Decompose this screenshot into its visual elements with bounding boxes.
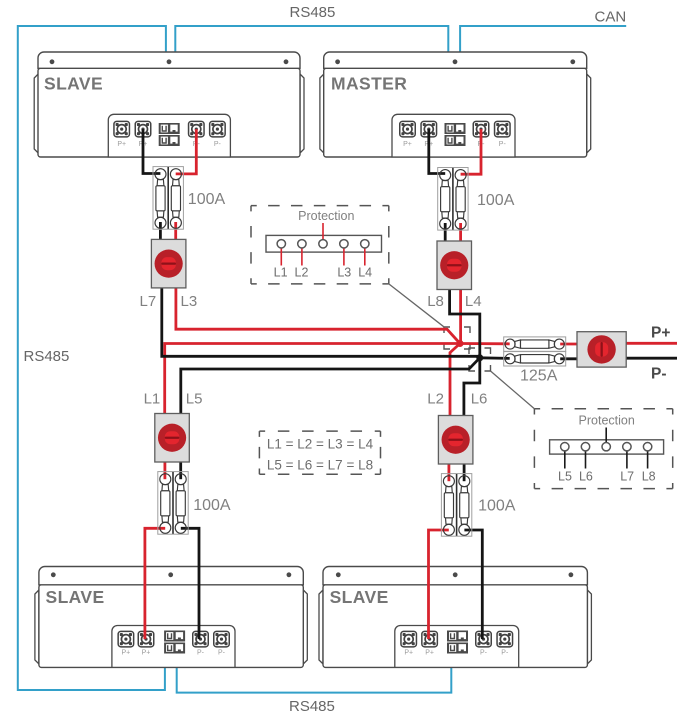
svg-text:100A: 100A [193, 497, 231, 514]
slave TL terminal P- 1 [189, 121, 205, 137]
slave BL left side flap [35, 590, 39, 664]
wire black L5: fuse BL bottom to slave BL P- terminal [181, 528, 199, 639]
bracket corner marks around red junction [444, 327, 470, 349]
slave TL screw 3 [284, 59, 289, 64]
slave BR terminal labels [404, 650, 509, 657]
master terminal labels [403, 141, 506, 148]
wire black L6: breaker BR to fuse BR [463, 463, 466, 481]
slave BL terminal P- 1 [193, 631, 209, 647]
wire RS485 top segment between slave and master [175, 26, 448, 53]
wire red L1: junction left and down to breaker BL [165, 344, 460, 415]
slave BR screw 1 [336, 572, 341, 577]
svg-text:L7: L7 [140, 293, 157, 310]
slave BL terminal panel [112, 626, 235, 668]
wire black L7: fuse to breaker [159, 222, 162, 240]
fuse 125A upper (P+) [504, 337, 566, 351]
slave BR terminal P+ 1 [401, 631, 417, 647]
svg-text:L6: L6 [579, 470, 593, 484]
slave BR screw 3 [569, 572, 574, 577]
slave BR comm block [447, 631, 468, 654]
svg-text:L5 = L6 = L7 = L8: L5 = L6 = L7 = L8 [267, 457, 373, 472]
wire black L6: junction stepped down to breaker BR [464, 358, 480, 417]
slave TL body [38, 68, 300, 157]
svg-text:100A: 100A [188, 191, 226, 208]
wire black L8: master P+ terminal to fuse TR [429, 129, 445, 173]
svg-text:SLAVE: SLAVE [44, 74, 103, 94]
fuse 100A bottom-left pair [158, 472, 188, 535]
master lid [324, 52, 587, 68]
fuse 100A top-left pair [153, 167, 183, 230]
note box dashed border [259, 431, 380, 474]
slave BL terminal labels [122, 650, 226, 657]
bracket corner marks around black junction [469, 348, 491, 371]
slave BL terminal P+ 1 [118, 631, 133, 647]
wire black L7: slave TL P+ terminal to fuse [143, 129, 160, 173]
svg-text:L8: L8 [642, 470, 656, 484]
wire red L2: breaker BR to fuse BR [447, 463, 450, 481]
svg-text:P-: P- [651, 366, 667, 383]
node black junction [476, 354, 483, 361]
wire red bus: junction to 125A fuse [460, 342, 510, 345]
wire black L8: fuse TR to breaker TR [444, 223, 447, 242]
svg-text:L5: L5 [558, 470, 572, 484]
wire black L7: breaker down and right to junction [162, 287, 480, 356]
svg-text:L2: L2 [295, 266, 309, 280]
wire black bus: junction to 125A fuse [480, 356, 510, 359]
svg-text:RS485: RS485 [290, 4, 336, 21]
svg-text:SLAVE: SLAVE [330, 587, 389, 607]
master terminal P- 2 [495, 121, 511, 137]
leader black to middle circle [605, 428, 607, 444]
svg-text:P-: P- [218, 650, 226, 657]
slave BL comm block [164, 631, 185, 654]
svg-text:P+: P+ [651, 325, 670, 342]
svg-text:L5: L5 [186, 391, 203, 408]
slave BL terminal P+ 2 [138, 631, 154, 647]
wire black L5: breaker BL to fuse BL [179, 461, 182, 479]
slave TL left side flap [34, 74, 38, 153]
slave TL screw 1 [50, 59, 55, 64]
wire black L6: fuse BR bottom to slave BR P- terminal [464, 530, 482, 639]
wire red bus: output breaker to P+ [626, 342, 677, 345]
slave BL body [39, 585, 303, 668]
master terminal P- 1 [473, 121, 489, 137]
wire red L1: breaker BL to fuse BL [163, 461, 166, 479]
slave BR terminal P+ 2 [422, 631, 438, 647]
slave BL lid [39, 567, 303, 585]
wire RS485 bottom segment between the two bottom slaves [177, 667, 452, 693]
labels L5-L8 [558, 470, 656, 484]
svg-text:L3: L3 [337, 266, 351, 280]
svg-text:P-: P- [501, 650, 509, 657]
leader red L1 [280, 247, 282, 266]
svg-text:Protection: Protection [298, 209, 354, 223]
slave TL screw 2 [167, 59, 172, 64]
svg-text:RS485: RS485 [289, 698, 335, 715]
labels L1-L4 [274, 266, 373, 280]
master left side flap [320, 74, 324, 153]
slave BR left side flap [319, 590, 323, 664]
svg-text:P+: P+ [403, 141, 412, 148]
svg-text:L1 = L2 = L3 = L4: L1 = L2 = L3 = L4 [267, 436, 374, 451]
leader line from protection top box to red junction bracket [389, 284, 445, 327]
wire red L4: breaker TR down to junction [459, 289, 462, 344]
master screw 3 [570, 59, 575, 64]
slave TL terminal P- 2 [210, 121, 226, 137]
slave BL terminal P- 2 [214, 631, 230, 647]
leader black L8 [647, 450, 649, 469]
slave BR right side flap [587, 590, 591, 664]
slave BL right side flap [303, 590, 307, 664]
svg-text:P-: P- [197, 650, 205, 657]
slave TL right side flap [300, 74, 304, 153]
svg-text:L8: L8 [427, 293, 444, 310]
slave BR body [323, 585, 587, 668]
slave TL terminal labels [117, 141, 221, 148]
svg-text:P+: P+ [122, 650, 131, 657]
breaker BL (isolator, L1/L5) [155, 414, 190, 463]
wire red L3: breaker down, right, diagonal to junction [176, 287, 460, 344]
leader red L3 [343, 247, 345, 266]
protection box bottom dashed border [534, 409, 672, 489]
master terminal P+ 2 [421, 121, 437, 137]
wire red L2: junction diagonal and down to breaker BR [450, 344, 460, 417]
slave BL screw 3 [287, 572, 292, 577]
svg-text:125A: 125A [520, 368, 558, 385]
svg-text:100A: 100A [478, 498, 516, 515]
svg-text:CAN: CAN [595, 9, 627, 26]
fuse 100A bottom-right pair [441, 474, 471, 537]
breaker BR (isolator, L2/L6) [438, 416, 473, 465]
leader black L5 [564, 450, 566, 469]
master screw 1 [335, 59, 340, 64]
master terminal panel [392, 114, 515, 157]
slave TL comm block [159, 123, 180, 146]
strip terminal circles [277, 240, 285, 248]
svg-text:P-: P- [499, 141, 507, 148]
svg-text:L4: L4 [358, 266, 372, 280]
svg-text:P-: P- [480, 650, 488, 657]
node red junction [457, 340, 464, 347]
wire red L4: master P- terminal to fuse TR [461, 129, 481, 174]
wire CAN from master to the right [460, 26, 626, 53]
leader red to middle circle [322, 223, 324, 240]
leader line from black junction bracket to protection bottom box [491, 371, 535, 409]
wire black L5: junction diagonal, left, down to breaker BL [181, 358, 480, 415]
master comm block [445, 123, 466, 146]
wire red L2: fuse BR bottom to slave BR P+ terminal [429, 530, 449, 639]
svg-text:SLAVE: SLAVE [46, 587, 105, 607]
breaker TR (isolator, L8/L4) [437, 241, 472, 290]
svg-text:L6: L6 [471, 391, 488, 408]
master terminal P+ 1 [400, 121, 416, 137]
svg-text:L3: L3 [181, 293, 198, 310]
svg-text:L7: L7 [620, 470, 634, 484]
svg-text:MASTER: MASTER [331, 74, 407, 94]
svg-text:P-: P- [214, 141, 222, 148]
svg-text:P+: P+ [142, 650, 151, 657]
slave BR terminal panel [395, 626, 519, 668]
protection terminal strip bottom [550, 440, 664, 454]
wire red L3: fuse to breaker [174, 222, 177, 240]
breaker TL (isolator, L7/L3) [151, 239, 186, 288]
wire red bus: 125A fuse to output breaker [560, 343, 578, 346]
wire red L1: fuse BL bottom to slave BL P+ terminal [145, 528, 165, 639]
svg-text:P+: P+ [404, 650, 413, 657]
wire black bus: output breaker to P- [626, 357, 677, 360]
svg-text:P+: P+ [425, 650, 434, 657]
svg-text:100A: 100A [477, 192, 515, 209]
breaker output (main isolator, vertical slot) [577, 332, 626, 367]
wire red L3: slave TL P- terminal to fuse [176, 129, 197, 174]
leader red L4 [364, 247, 366, 266]
slave TL terminal P+ 1 [114, 121, 130, 137]
wire black L8: breaker TR stepped down to junction [450, 289, 480, 358]
master body [324, 68, 587, 157]
leader black L7 [626, 450, 628, 469]
svg-text:L4: L4 [465, 293, 482, 310]
wire RS485 loop: left vertical + top-left segment + bottom-left segment [18, 26, 166, 690]
slave BL screw 1 [51, 572, 56, 577]
protection box top dashed border [251, 206, 389, 284]
svg-text:L2: L2 [427, 391, 444, 408]
wire red L4: fuse TR to breaker TR [459, 223, 462, 242]
slave BR screw 2 [453, 572, 458, 577]
slave BR terminal P- 2 [497, 631, 513, 647]
svg-text:P+: P+ [117, 141, 126, 148]
fuse 100A top-right pair [438, 168, 468, 231]
fuse 125A lower (P-) [504, 352, 566, 366]
leader red L2 [301, 247, 303, 266]
master screw 2 [453, 59, 458, 64]
svg-text:L1: L1 [274, 266, 288, 280]
slave BL screw 2 [168, 572, 173, 577]
svg-text:L1: L1 [144, 391, 161, 408]
slave TL terminal panel [108, 114, 230, 157]
svg-text:Protection: Protection [579, 414, 635, 428]
slave BR terminal P- 1 [476, 631, 492, 647]
svg-text:RS485: RS485 [24, 348, 70, 365]
strip terminal circles [561, 443, 569, 451]
wire black bus: 125A fuse to output breaker [560, 357, 578, 360]
master right side flap [587, 74, 591, 153]
slave TL lid [38, 52, 300, 68]
slave BR lid [323, 567, 587, 585]
leader black L6 [585, 450, 587, 469]
protection terminal strip top [266, 235, 382, 252]
slave TL terminal P+ 2 [135, 121, 151, 137]
